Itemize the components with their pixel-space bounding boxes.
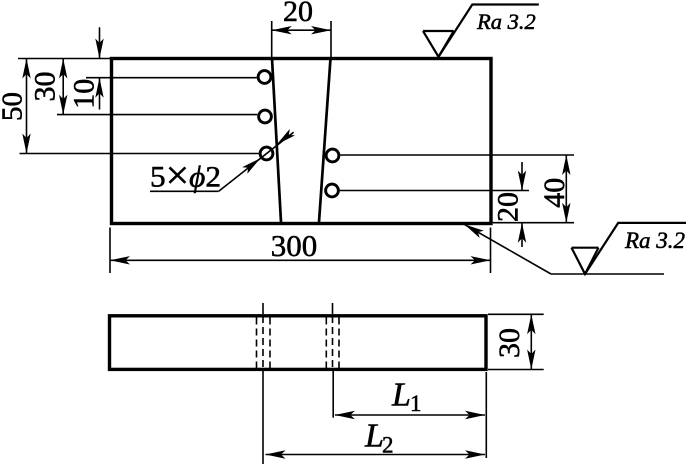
svg-text:L: L — [391, 377, 411, 414]
svg-text:1: 1 — [410, 391, 422, 416]
svg-text:300: 300 — [271, 228, 318, 263]
svg-text:Ra 3.2: Ra 3.2 — [624, 228, 685, 253]
svg-text:20: 20 — [492, 192, 525, 222]
svg-text:50: 50 — [0, 92, 29, 121]
svg-text:Ra 3.2: Ra 3.2 — [476, 9, 536, 34]
svg-text:30: 30 — [28, 72, 61, 102]
svg-text:30: 30 — [493, 328, 526, 358]
svg-text:2: 2 — [382, 433, 394, 458]
svg-text:40: 40 — [538, 178, 571, 208]
svg-text:20: 20 — [283, 0, 313, 28]
svg-text:L: L — [364, 418, 384, 455]
svg-text:10: 10 — [68, 79, 101, 109]
